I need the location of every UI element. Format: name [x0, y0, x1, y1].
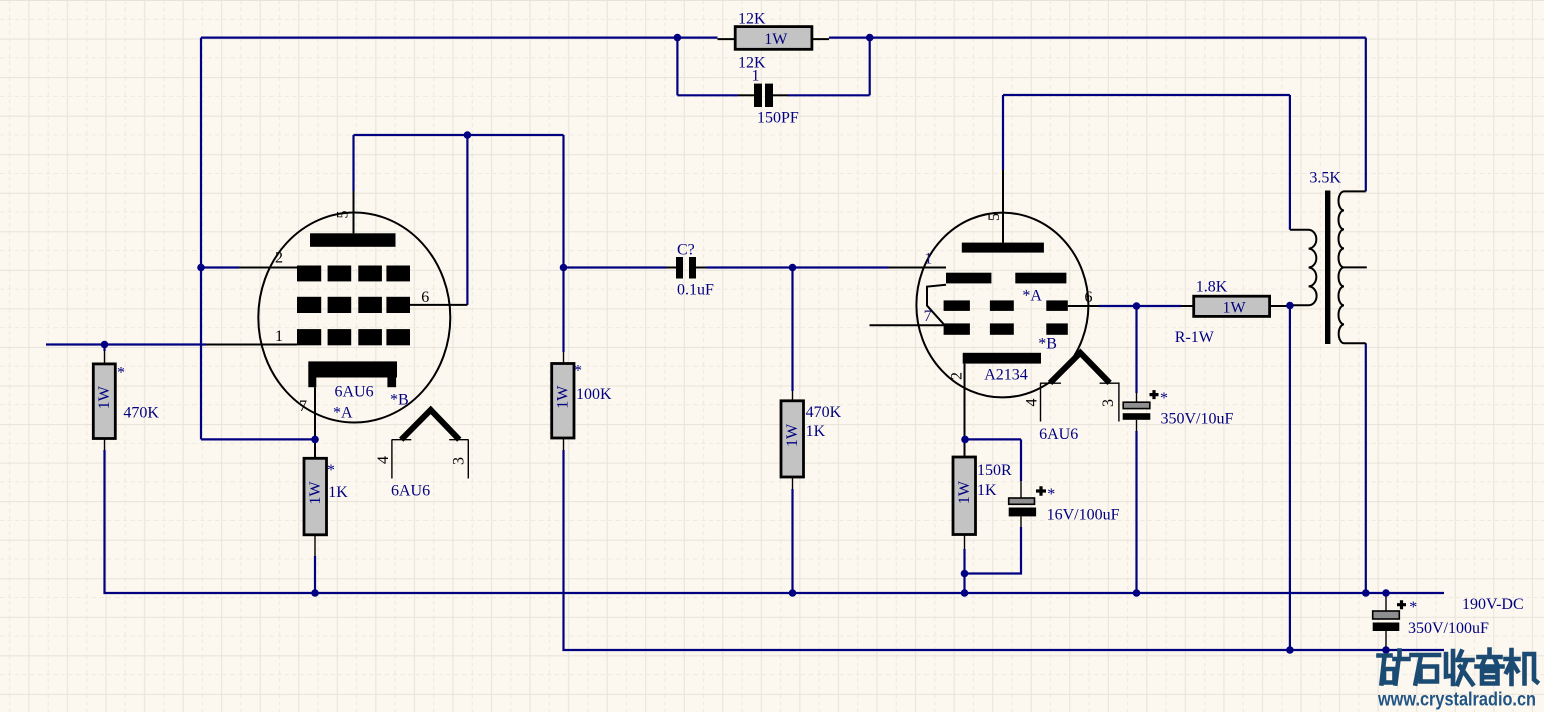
svg-text:5: 5 [335, 211, 352, 219]
svg-text:*: * [1409, 599, 1417, 616]
svg-text:6AU6: 6AU6 [391, 483, 430, 500]
svg-text:1.8K: 1.8K [1196, 279, 1228, 296]
svg-text:*: * [1160, 390, 1168, 407]
svg-text:190V-DC: 190V-DC [1462, 596, 1524, 613]
svg-text:www.crystalradio.cn: www.crystalradio.cn [1377, 689, 1536, 711]
svg-text:1W: 1W [956, 480, 973, 504]
svg-text:6: 6 [1085, 289, 1093, 306]
svg-text:1W: 1W [764, 31, 788, 48]
svg-text:1K: 1K [806, 423, 826, 440]
svg-text:12K: 12K [738, 10, 766, 27]
svg-text:1K: 1K [977, 482, 997, 499]
svg-text:R-1W: R-1W [1175, 329, 1215, 346]
svg-text:350V/10uF: 350V/10uF [1161, 411, 1234, 428]
svg-text:150R: 150R [977, 462, 1012, 479]
svg-text:*A: *A [1022, 288, 1042, 305]
svg-text:1W: 1W [555, 385, 572, 409]
svg-text:4: 4 [375, 456, 392, 464]
svg-text:2: 2 [275, 250, 283, 267]
svg-text:1W: 1W [1222, 299, 1246, 316]
svg-text:3.5K: 3.5K [1309, 170, 1341, 187]
svg-text:3: 3 [1100, 399, 1117, 407]
svg-text:5: 5 [986, 213, 1003, 221]
svg-text:6: 6 [421, 289, 429, 306]
svg-text:*B: *B [1038, 336, 1057, 353]
svg-text:150PF: 150PF [757, 110, 799, 127]
svg-text:C?: C? [677, 242, 695, 259]
svg-text:*B: *B [390, 392, 409, 409]
svg-text:1K: 1K [328, 484, 348, 501]
svg-text:A2134: A2134 [984, 367, 1028, 384]
svg-text:3: 3 [451, 457, 468, 465]
svg-text:470K: 470K [806, 404, 842, 421]
svg-text:4: 4 [1024, 399, 1041, 407]
svg-text:7: 7 [299, 398, 307, 415]
svg-text:1W: 1W [307, 481, 324, 505]
svg-text:350V/100uF: 350V/100uF [1408, 620, 1489, 637]
svg-text:6AU6: 6AU6 [1039, 426, 1078, 443]
svg-text:100K: 100K [576, 386, 612, 403]
svg-text:16V/100uF: 16V/100uF [1047, 507, 1120, 524]
svg-text:*: * [1047, 486, 1055, 503]
svg-text:0.1uF: 0.1uF [677, 282, 714, 299]
svg-text:1: 1 [275, 328, 283, 345]
svg-text:*: * [117, 365, 125, 382]
svg-text:6AU6: 6AU6 [335, 384, 374, 401]
svg-text:7: 7 [924, 308, 932, 325]
svg-text:*: * [327, 462, 335, 479]
svg-text:1W: 1W [96, 385, 113, 409]
svg-text:*A: *A [333, 405, 353, 422]
svg-text:*: * [574, 363, 582, 380]
svg-text:470K: 470K [123, 405, 159, 422]
svg-text:1W: 1W [784, 423, 801, 447]
svg-text:2: 2 [949, 372, 966, 380]
svg-text:1: 1 [924, 251, 932, 268]
svg-text:1: 1 [752, 68, 760, 85]
